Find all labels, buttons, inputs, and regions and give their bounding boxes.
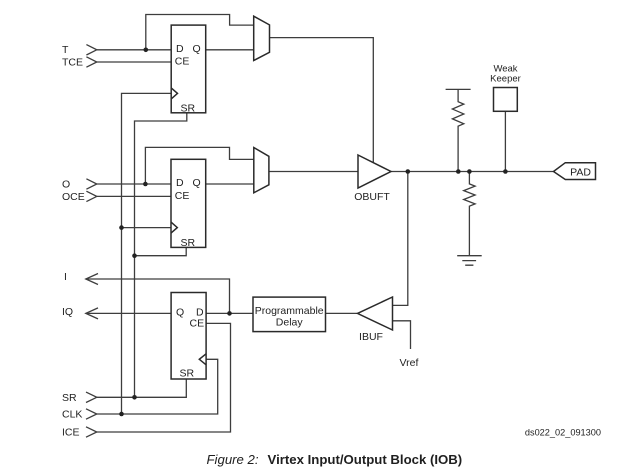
junction dot SR rail to SR row	[132, 395, 137, 400]
wire FF2 Q to mux M2 bottom input	[206, 183, 254, 185]
wire weak keeper to pad net	[504, 111, 506, 171]
svg-text:Keeper: Keeper	[490, 73, 521, 84]
flip-flop FF2 clock wedge	[171, 222, 177, 233]
wire FF2 SR pin down to SR vertical rail	[135, 247, 187, 255]
svg-text:Figure 2:Virtex Input/Output B: Figure 2:Virtex Input/Output Block (IOB)	[207, 452, 463, 467]
mux M1	[254, 16, 270, 60]
svg-text:OBUFT: OBUFT	[354, 191, 390, 203]
mux M2	[254, 148, 269, 193]
wire FF1 SR pin down to SR vertical rail	[135, 113, 187, 398]
svg-text:D: D	[176, 177, 184, 189]
wire CLK vertical rail to FF1 clock	[122, 93, 172, 414]
svg-text:OCE: OCE	[62, 191, 85, 203]
wire CLK row to FF3 clock	[97, 359, 218, 414]
svg-text:CE: CE	[190, 318, 205, 330]
port chevron IQ (output)	[86, 308, 98, 319]
wire programmable delay to IBUF output	[326, 312, 358, 314]
wire OBUFT output to PAD	[391, 171, 554, 173]
wire Vref stub to IBUF reference input	[393, 321, 411, 349]
svg-text:CE: CE	[175, 56, 190, 68]
PAD connector	[554, 163, 596, 180]
svg-text:T: T	[62, 44, 69, 56]
junction dot T/D	[144, 48, 149, 53]
flip-flop FF3 clock wedge	[199, 354, 206, 365]
port chevron O	[86, 179, 96, 189]
svg-text:SR: SR	[180, 367, 195, 379]
svg-text:Programmable: Programmable	[255, 305, 324, 317]
junction dot SR rail to FF2	[132, 253, 137, 258]
flip-flop FF3 (input register) body	[171, 293, 206, 380]
junction dot pull-up	[456, 169, 461, 174]
junction dot O/D	[143, 182, 148, 187]
junction dot CLK rail to FF2	[119, 225, 124, 230]
svg-text:ICE: ICE	[62, 427, 80, 439]
wire CLK rail branch to FF2 clock	[122, 227, 172, 229]
svg-text:ds022_02_091300: ds022_02_091300	[525, 428, 601, 438]
junction dot pull-down	[467, 169, 472, 174]
svg-text:CE: CE	[175, 190, 190, 202]
ground symbol	[457, 256, 482, 266]
weak keeper box	[494, 88, 518, 112]
op-amp IBUF input buffer triangle	[358, 297, 393, 330]
power rail bar above pull-up resistor	[446, 88, 471, 90]
wire pad net down to IBUF input	[393, 172, 408, 306]
wire mux M1 output to OBUFT tristate control	[270, 38, 374, 163]
resistor R1 pull-up	[452, 89, 463, 171]
port chevron I (output)	[86, 274, 98, 285]
svg-text:SR: SR	[62, 392, 77, 404]
port chevron CLK	[86, 409, 97, 419]
resistor R2 pull-down	[464, 172, 475, 256]
wire FF1 Q to mux M1 bottom input	[206, 49, 254, 51]
svg-text:CLK: CLK	[62, 409, 82, 421]
svg-text:TCE: TCE	[62, 57, 83, 69]
svg-text:O: O	[62, 179, 70, 191]
port chevron SR	[86, 392, 97, 402]
svg-text:Vref: Vref	[400, 357, 419, 369]
flip-flop FF2 (O register) body	[171, 159, 206, 247]
programmable delay box	[253, 297, 326, 332]
wire IQ to FF3 Q	[86, 312, 171, 314]
junction dot weak keeper	[503, 169, 508, 174]
junction dot pad net to IBUF branch	[406, 169, 411, 174]
junction dot CLK rail to CLK row	[119, 412, 124, 417]
wire OCE to FF2 CE	[97, 195, 171, 197]
wire T to FF1 D	[97, 49, 171, 51]
svg-text:IBUF: IBUF	[359, 331, 383, 343]
svg-text:D: D	[176, 43, 184, 55]
wire O to FF2 D	[97, 183, 171, 185]
wire SR row to FF3 SR pin	[97, 379, 187, 397]
wire TCE to FF1 CE	[97, 61, 171, 63]
wire FF1 D-bypass feedback to mux M1 top input	[146, 15, 254, 50]
svg-text:PAD: PAD	[570, 166, 591, 178]
flip-flop FF1 clock wedge	[171, 88, 177, 99]
port chevron TCE	[86, 57, 96, 67]
svg-text:I: I	[64, 271, 67, 283]
wire FF3 D to programmable delay	[206, 312, 253, 314]
wire ICE row to FF3 CE	[97, 323, 231, 432]
port chevron T	[86, 45, 96, 55]
svg-text:IQ: IQ	[62, 306, 73, 318]
wire mux M2 output to OBUFT input	[269, 171, 358, 173]
port chevron ICE	[86, 427, 97, 437]
svg-text:Q: Q	[193, 177, 201, 189]
port chevron OCE	[86, 191, 96, 201]
op-amp OBUFT output buffer triangle	[358, 155, 391, 188]
wire FF2 D-bypass feedback to mux M2 top input	[145, 147, 253, 184]
svg-text:SR: SR	[181, 237, 196, 249]
junction dot I / delay node	[227, 311, 232, 316]
svg-text:Q: Q	[193, 43, 201, 55]
svg-text:Q: Q	[176, 307, 184, 319]
svg-text:Delay: Delay	[276, 317, 304, 329]
svg-text:SR: SR	[181, 103, 196, 115]
flip-flop FF1 (T register) body	[171, 25, 206, 113]
wire I to IBUF output node	[86, 279, 230, 313]
